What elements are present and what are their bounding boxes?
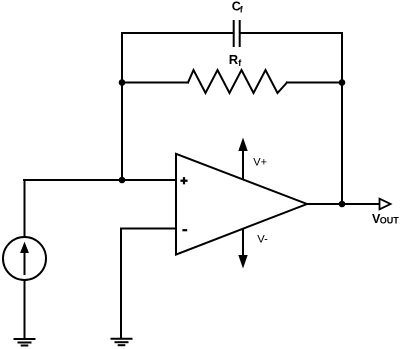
svg-text:OUT: OUT	[380, 216, 400, 226]
wire left vertical feedback	[121, 33, 123, 180]
wire non-inverting input	[24, 179, 176, 181]
V+ supply arrow	[239, 139, 247, 179]
wire current source bottom	[24, 280, 26, 339]
junction node output	[339, 201, 346, 208]
current source arrow	[21, 243, 28, 274]
wire inverting input	[121, 228, 176, 230]
wire output	[307, 203, 379, 205]
ground right	[112, 339, 132, 346]
current source I1	[3, 237, 46, 280]
junction node non-inverting input	[119, 177, 126, 184]
wire right vertical feedback	[341, 33, 343, 204]
wire top feedback right segment	[241, 32, 343, 34]
junction node right resistor	[339, 79, 346, 86]
junction node left resistor	[119, 79, 126, 86]
svg-text:V-: V-	[257, 234, 268, 246]
wire inverting input to ground	[120, 229, 122, 339]
capacitor Cf	[234, 21, 240, 46]
wire resistor right lead	[287, 82, 342, 84]
op-amp plus sign	[180, 177, 187, 184]
label Vout	[372, 212, 399, 226]
op-amp minus sign	[182, 229, 187, 231]
op-amp U1	[176, 154, 307, 255]
svg-text:V+: V+	[253, 157, 267, 169]
output arrow	[380, 199, 391, 210]
wire current source top	[24, 180, 26, 237]
ground left	[15, 339, 35, 346]
resistor Rf	[188, 70, 287, 93]
wire resistor left lead	[122, 82, 188, 84]
V- supply arrow	[239, 229, 247, 267]
svg-text:R: R	[229, 52, 239, 67]
wire top feedback left segment	[122, 32, 233, 34]
